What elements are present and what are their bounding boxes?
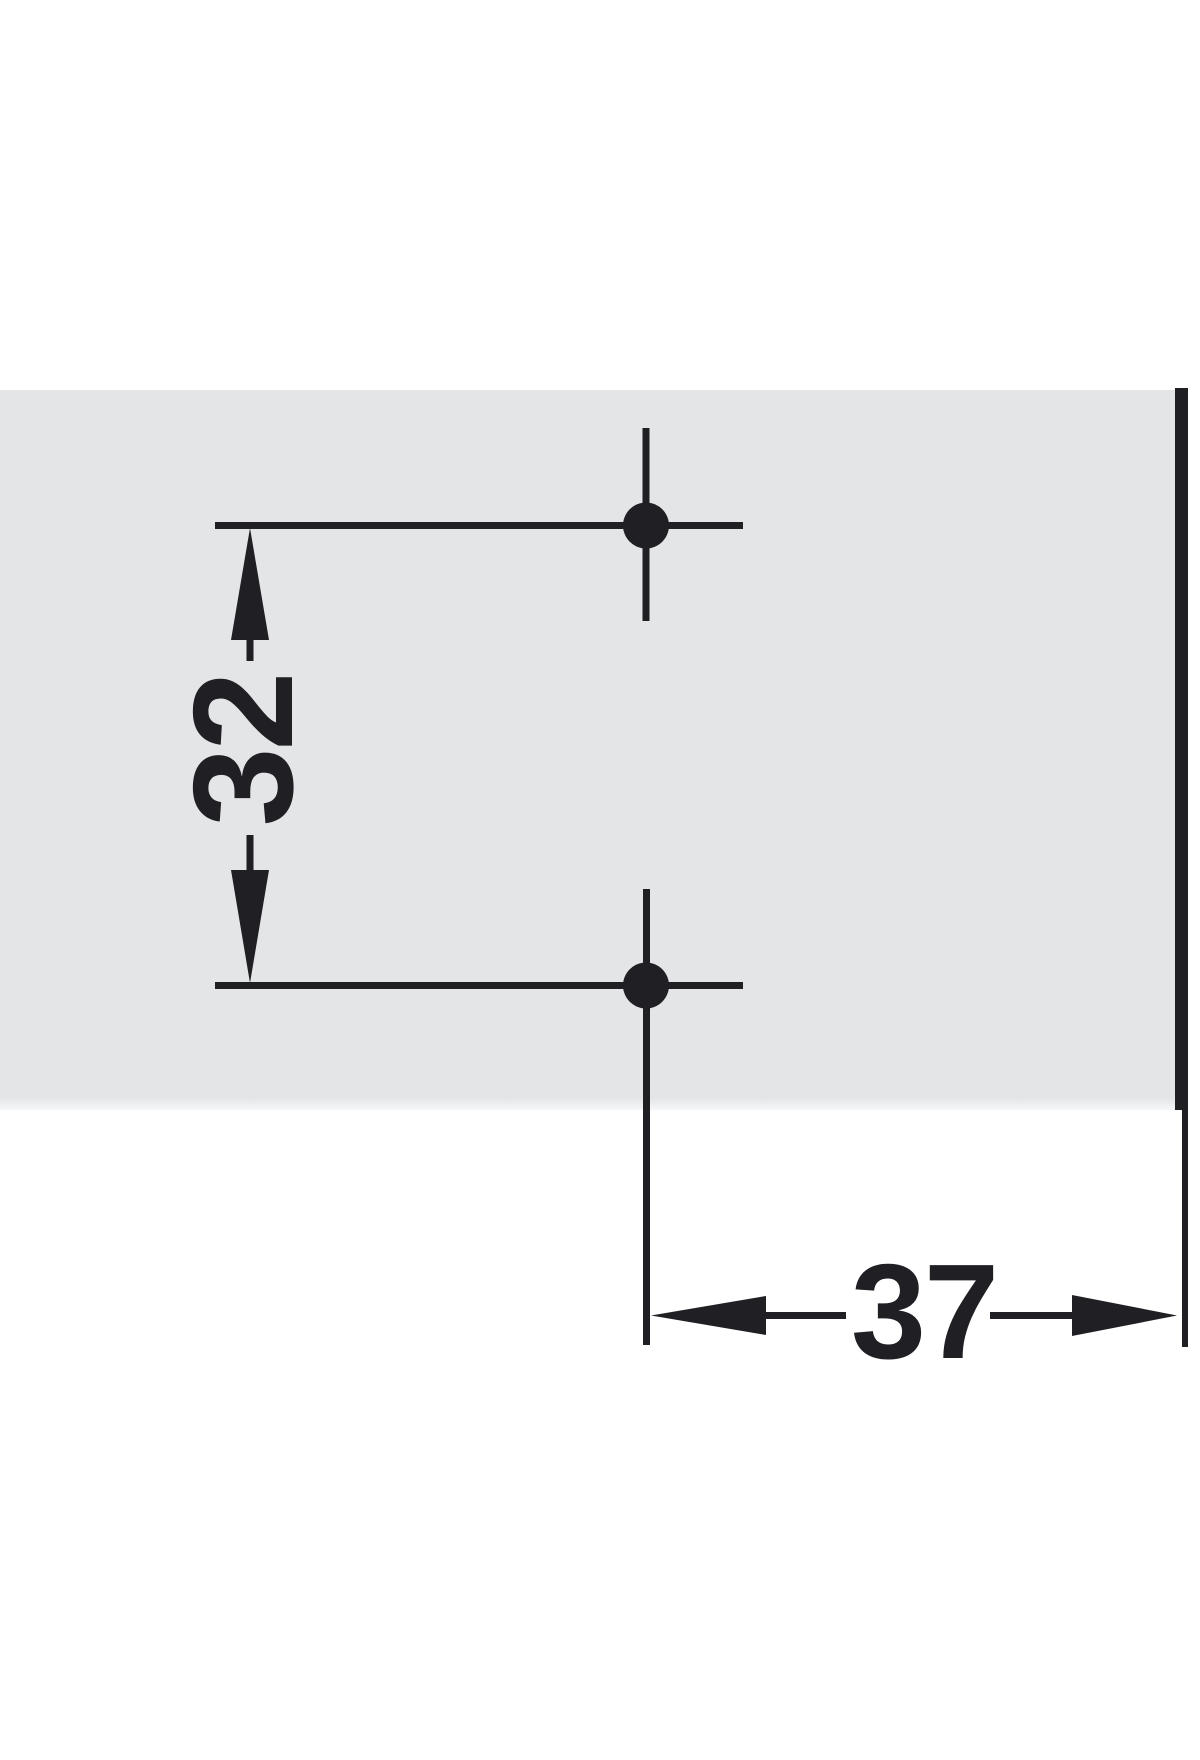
svg-text:32: 32	[164, 675, 323, 827]
svg-text:37: 37	[851, 1236, 997, 1387]
